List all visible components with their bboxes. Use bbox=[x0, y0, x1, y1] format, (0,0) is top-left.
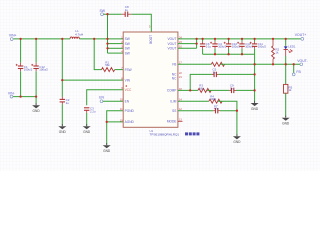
resistor R1 bbox=[102, 68, 115, 72]
svg-text:SW: SW bbox=[125, 42, 130, 46]
svg-text:GND: GND bbox=[83, 130, 91, 134]
svg-text:SW: SW bbox=[125, 51, 130, 55]
svg-text:GND: GND bbox=[103, 149, 111, 153]
svg-text:100k: 100k bbox=[210, 97, 216, 101]
svg-text:SW: SW bbox=[125, 37, 130, 41]
value CJK blocks bbox=[185, 132, 199, 135]
ground C2 bbox=[58, 124, 66, 134]
svg-text:1n: 1n bbox=[230, 86, 233, 90]
svg-text:56k: 56k bbox=[105, 63, 110, 67]
ground R5 bbox=[282, 116, 290, 126]
svg-text:VIN: VIN bbox=[125, 78, 131, 82]
capacitor C12 bbox=[31, 63, 39, 72]
svg-text:GND: GND bbox=[251, 107, 259, 111]
ground C3 bbox=[83, 124, 91, 134]
capacitor C1 bbox=[16, 63, 24, 72]
svg-text:SS: SS bbox=[172, 109, 176, 113]
svg-text:ILIM: ILIM bbox=[170, 99, 177, 103]
IC pin names right bbox=[167, 37, 177, 123]
svg-text:4.7uH: 4.7uH bbox=[75, 32, 83, 36]
pin numbers bbox=[120, 36, 123, 122]
ground PGND/AGND bbox=[103, 143, 111, 153]
wire R1 drop bbox=[94, 39, 101, 70]
wire ILIM row bbox=[178, 100, 209, 102]
svg-text:COMP: COMP bbox=[167, 89, 177, 93]
svg-text:VIN-: VIN- bbox=[8, 91, 15, 95]
wire SW pin stubs bbox=[108, 43, 124, 45]
svg-text:100u/2: 100u/2 bbox=[218, 45, 227, 49]
svg-text:GND: GND bbox=[59, 130, 67, 134]
svg-text:NC: NC bbox=[172, 77, 177, 81]
wire C2 to gnd bbox=[61, 104, 63, 126]
svg-text:2.2u: 2.2u bbox=[90, 109, 96, 113]
svg-text:VCC: VCC bbox=[125, 88, 132, 92]
wire C12 branch bbox=[35, 39, 37, 63]
svg-text:VOUT: VOUT bbox=[168, 37, 177, 41]
svg-text:EN: EN bbox=[99, 96, 104, 100]
svg-text:VIN+: VIN+ bbox=[9, 34, 17, 38]
wire VIN- gnd drop bbox=[35, 97, 37, 105]
svg-text:GND: GND bbox=[282, 122, 290, 126]
wire VIN- rail bbox=[13, 96, 36, 98]
capacitor C10 bbox=[224, 41, 232, 49]
svg-text:VOUT: VOUT bbox=[168, 42, 177, 46]
svg-text:100u/2: 100u/2 bbox=[24, 68, 33, 72]
ground output bbox=[251, 101, 259, 111]
wire C8 to BOOT bbox=[131, 14, 151, 32]
svg-text:56k: 56k bbox=[199, 86, 204, 90]
resistor R4 bbox=[209, 99, 222, 103]
capacitor C7 bbox=[213, 108, 220, 113]
wire VCC feed bbox=[87, 90, 124, 106]
pin MODE stub bbox=[178, 120, 183, 122]
svg-text:1n: 1n bbox=[213, 70, 216, 74]
svg-text:SW: SW bbox=[125, 47, 130, 51]
svg-text:VOUT-: VOUT- bbox=[297, 59, 307, 63]
IC pin names left bbox=[125, 37, 135, 124]
resistor R5 bbox=[285, 64, 287, 84]
svg-text:PGND: PGND bbox=[125, 109, 135, 113]
svg-text:AGND: AGND bbox=[125, 120, 135, 124]
svg-text:100u/2: 100u/2 bbox=[39, 68, 48, 72]
capacitor C5 bbox=[212, 72, 219, 77]
svg-text:FB: FB bbox=[172, 63, 176, 67]
svg-text:LED1: LED1 bbox=[288, 44, 296, 48]
wire SW bus bbox=[107, 39, 109, 53]
resistor R2 bbox=[272, 39, 274, 46]
ground VIN- bbox=[32, 103, 40, 113]
svg-text:1u: 1u bbox=[125, 8, 129, 12]
svg-text:VOUT: VOUT bbox=[168, 47, 177, 51]
capacitor C4 bbox=[210, 41, 218, 49]
wire VOUT+ rail bbox=[197, 38, 301, 40]
op-amp U1 IC body bbox=[123, 32, 178, 127]
svg-text:EN: EN bbox=[125, 99, 130, 103]
wire VOUT pin stubs + bus bbox=[178, 38, 197, 40]
svg-text:TPS61088QRHLRQ1: TPS61088QRHLRQ1 bbox=[150, 133, 180, 137]
capacitor C6 bbox=[200, 41, 205, 49]
resistor R6 bbox=[211, 62, 224, 66]
wire VIN pin feed bbox=[62, 79, 123, 81]
wire SS row bbox=[178, 110, 213, 112]
capacitor C2 bbox=[60, 97, 65, 105]
wire C3 to gnd bbox=[86, 113, 88, 126]
node FB port bbox=[293, 64, 295, 73]
svg-text:47n: 47n bbox=[214, 107, 219, 111]
svg-text:100u/2: 100u/2 bbox=[258, 45, 267, 49]
LED LED1 bbox=[285, 39, 287, 46]
wire VIN+ rail bbox=[13, 38, 70, 40]
svg-text:100u/2: 100u/2 bbox=[232, 45, 241, 49]
wire C1 branch bbox=[20, 39, 22, 63]
svg-text:FB: FB bbox=[296, 70, 301, 74]
wire SW rail after inductor bbox=[79, 38, 123, 40]
wire COMP bypass line A bbox=[190, 74, 212, 90]
svg-text:GND: GND bbox=[233, 140, 241, 144]
wire R1 to FSW bbox=[115, 69, 124, 71]
capacitor C9 bbox=[229, 88, 236, 93]
wire COMP line B bbox=[178, 89, 198, 91]
capacitor C8 bbox=[122, 12, 132, 17]
wire FB rail bbox=[178, 63, 211, 65]
capacitor C3 bbox=[84, 108, 89, 113]
wire AGND stub bbox=[107, 121, 124, 123]
capacitor C11 bbox=[250, 41, 258, 49]
inductor L1 bbox=[70, 37, 79, 39]
wire ILIM/SS gnd drop bbox=[236, 111, 238, 136]
svg-text:GND: GND bbox=[33, 109, 41, 113]
svg-text:SW: SW bbox=[100, 9, 106, 13]
svg-text:VOUT+: VOUT+ bbox=[295, 33, 306, 37]
wire gnd drop right bbox=[254, 54, 256, 102]
svg-text:FSW: FSW bbox=[125, 68, 132, 72]
capacitor C13 bbox=[237, 41, 245, 49]
wire caps bottom rail bbox=[203, 53, 255, 55]
wire PGND/AGND bus bbox=[107, 111, 124, 145]
wire SW drop bbox=[107, 14, 109, 39]
ground ILIM/SS bbox=[233, 134, 241, 144]
wire VIN branch vertical bbox=[61, 39, 63, 97]
svg-text:0.1u: 0.1u bbox=[206, 45, 212, 49]
wire SW port to C8 bbox=[104, 13, 122, 15]
svg-text:1u: 1u bbox=[66, 101, 70, 105]
resistor R3 bbox=[198, 88, 211, 92]
svg-text:BOOT: BOOT bbox=[149, 35, 153, 44]
wire EN bbox=[103, 100, 123, 102]
svg-text:MODE: MODE bbox=[167, 120, 177, 124]
